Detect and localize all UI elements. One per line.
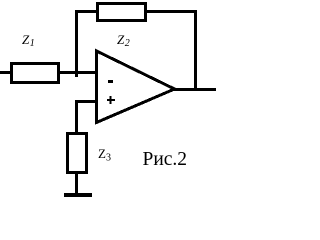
- wire: left input stub to Z1: [0, 71, 10, 74]
- node A: junction of feedback riser and input wire: [75, 74, 78, 77]
- wire: op-amp output: [174, 88, 216, 91]
- wire: feedback riser (left vertical): [75, 10, 78, 74]
- op-amp U1 (triangle): [97, 51, 175, 123]
- label Z1: [22, 32, 35, 49]
- label: inverting input minus sign: [108, 80, 113, 83]
- wire: right feedback drop to output: [194, 10, 197, 91]
- resistor Z1 (box): [12, 64, 59, 83]
- wire: Z1 to inverting input node: [60, 71, 98, 74]
- wire: Z3 to ground: [75, 174, 78, 194]
- label: non-inverting input plus sign: [107, 96, 115, 104]
- wire: non-inverting input horizontal: [75, 100, 97, 103]
- caption: Рис.2: [143, 149, 188, 170]
- resistor Z2 (feedback box): [98, 4, 146, 21]
- svg-text:Рис.2: Рис.2: [143, 149, 188, 170]
- wire: drop from + input to Z3: [75, 100, 78, 132]
- wire: top left segment to Z2: [75, 10, 97, 13]
- ground: [64, 193, 92, 197]
- label Z2: [117, 32, 130, 49]
- resistor Z3 (vertical box): [68, 134, 87, 173]
- label Z3: [98, 146, 111, 164]
- wire: top right segment from Z2 to corner: [147, 10, 197, 13]
